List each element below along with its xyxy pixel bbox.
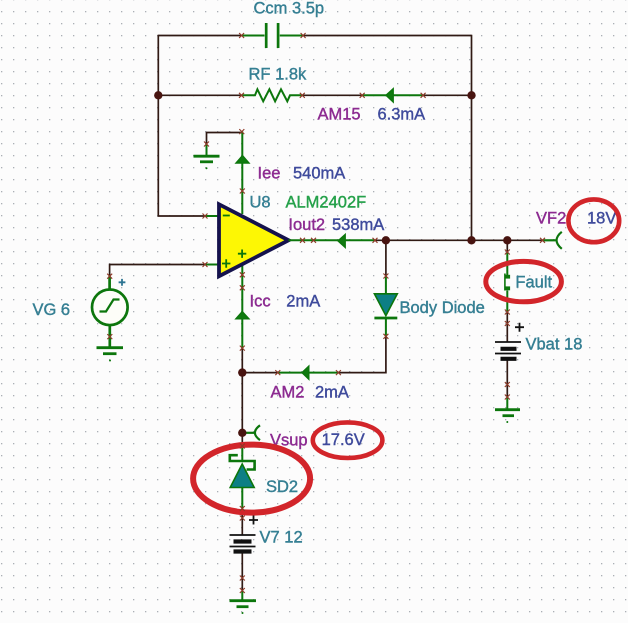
wire AM2 to center node [242, 372, 277, 374]
schottky diode SD2 [230, 444, 255, 509]
wire top ground to V+ pin [207, 133, 242, 145]
wire body-diode branch lower to AM2 [338, 336, 386, 372]
red circle around 17.6V [313, 422, 383, 458]
capacitor Ccm [242, 23, 304, 48]
op-amp output pin with ammeter Iout2 [289, 234, 376, 247]
ground under VG [97, 348, 124, 362]
op-amp V- pin [241, 263, 243, 348]
red circle around 18V [568, 199, 619, 242]
battery Vbat [495, 342, 521, 359]
svg-text:Vbat 18: Vbat 18 [526, 336, 583, 354]
voltage source VG [92, 276, 128, 347]
junction node Vsup [238, 429, 246, 437]
op-amp input pins [205, 216, 220, 265]
wire top loop left horizontal [158, 35, 241, 37]
wire right vertical [471, 35, 473, 241]
svg-text:U8ALM2402F: U8ALM2402F [250, 193, 367, 211]
wire top loop right horizontal [303, 35, 471, 37]
ammeter AM2 [278, 366, 339, 379]
junction node output to feedback [467, 236, 475, 244]
wire left vertical to inverting input [158, 35, 205, 216]
op-amp U8 triangle [219, 204, 289, 276]
wire SD2 to V7 battery [241, 509, 243, 536]
resistor RF [242, 89, 303, 101]
wire fault jumper to Vbat battery [506, 312, 508, 342]
junction node Icc AM2 [238, 368, 246, 376]
red circle around Fault [486, 261, 562, 301]
voltage probe VF2 [543, 232, 562, 249]
op-amp V+ pin [241, 132, 243, 215]
wire V7 battery to ground [241, 553, 243, 591]
VG plus sign [119, 279, 126, 286]
ground top (op-amp) [194, 144, 220, 169]
junction node output to Vbat branch [503, 236, 511, 244]
junction node output to body diode [382, 236, 390, 244]
svg-text:Iout2538mA: Iout2538mA [288, 216, 384, 234]
ground under Vbat [495, 397, 520, 423]
V7 plus sign [249, 516, 258, 525]
svg-text:RF 1.8k: RF 1.8k [249, 66, 308, 84]
svg-text:VG 6: VG 6 [33, 301, 71, 319]
pin connection x marks [107, 33, 545, 593]
svg-text:VF2: VF2 [536, 209, 566, 227]
ammeter arrow Icc [236, 312, 249, 319]
body diode D [374, 276, 397, 336]
ammeter AM15 [362, 89, 423, 102]
voltage probe Vsup [242, 425, 260, 440]
svg-text:V7 12: V7 12 [260, 529, 303, 547]
svg-text:Iee540mA: Iee540mA [258, 164, 346, 182]
Vbat plus sign [515, 323, 524, 332]
battery V7 [230, 535, 256, 552]
wire feedback row segments [158, 94, 471, 96]
junction node left feedback [154, 91, 162, 99]
svg-text:17.6V: 17.6V [322, 431, 365, 449]
wire noninverting input from VG [110, 265, 205, 277]
svg-text:Fault: Fault [515, 273, 552, 291]
wire center vertical Icc to Vsup node [241, 348, 243, 444]
svg-text:Body Diode: Body Diode [400, 299, 485, 317]
ammeter arrow Iee [236, 156, 249, 164]
wire output node to fault jumper [506, 240, 508, 252]
wire Vbat battery to ground [506, 361, 508, 398]
wire body-diode branch upper [385, 240, 387, 276]
red circle around SD2 [193, 445, 310, 513]
fault jumper [505, 252, 510, 312]
svg-text:Ccm 3.5p: Ccm 3.5p [254, 0, 325, 18]
svg-text:18V: 18V [587, 209, 616, 227]
junction node right feedback [467, 91, 475, 99]
wire output row [375, 239, 543, 241]
ground under V7 [230, 591, 257, 614]
svg-text:SD2: SD2 [266, 478, 298, 496]
